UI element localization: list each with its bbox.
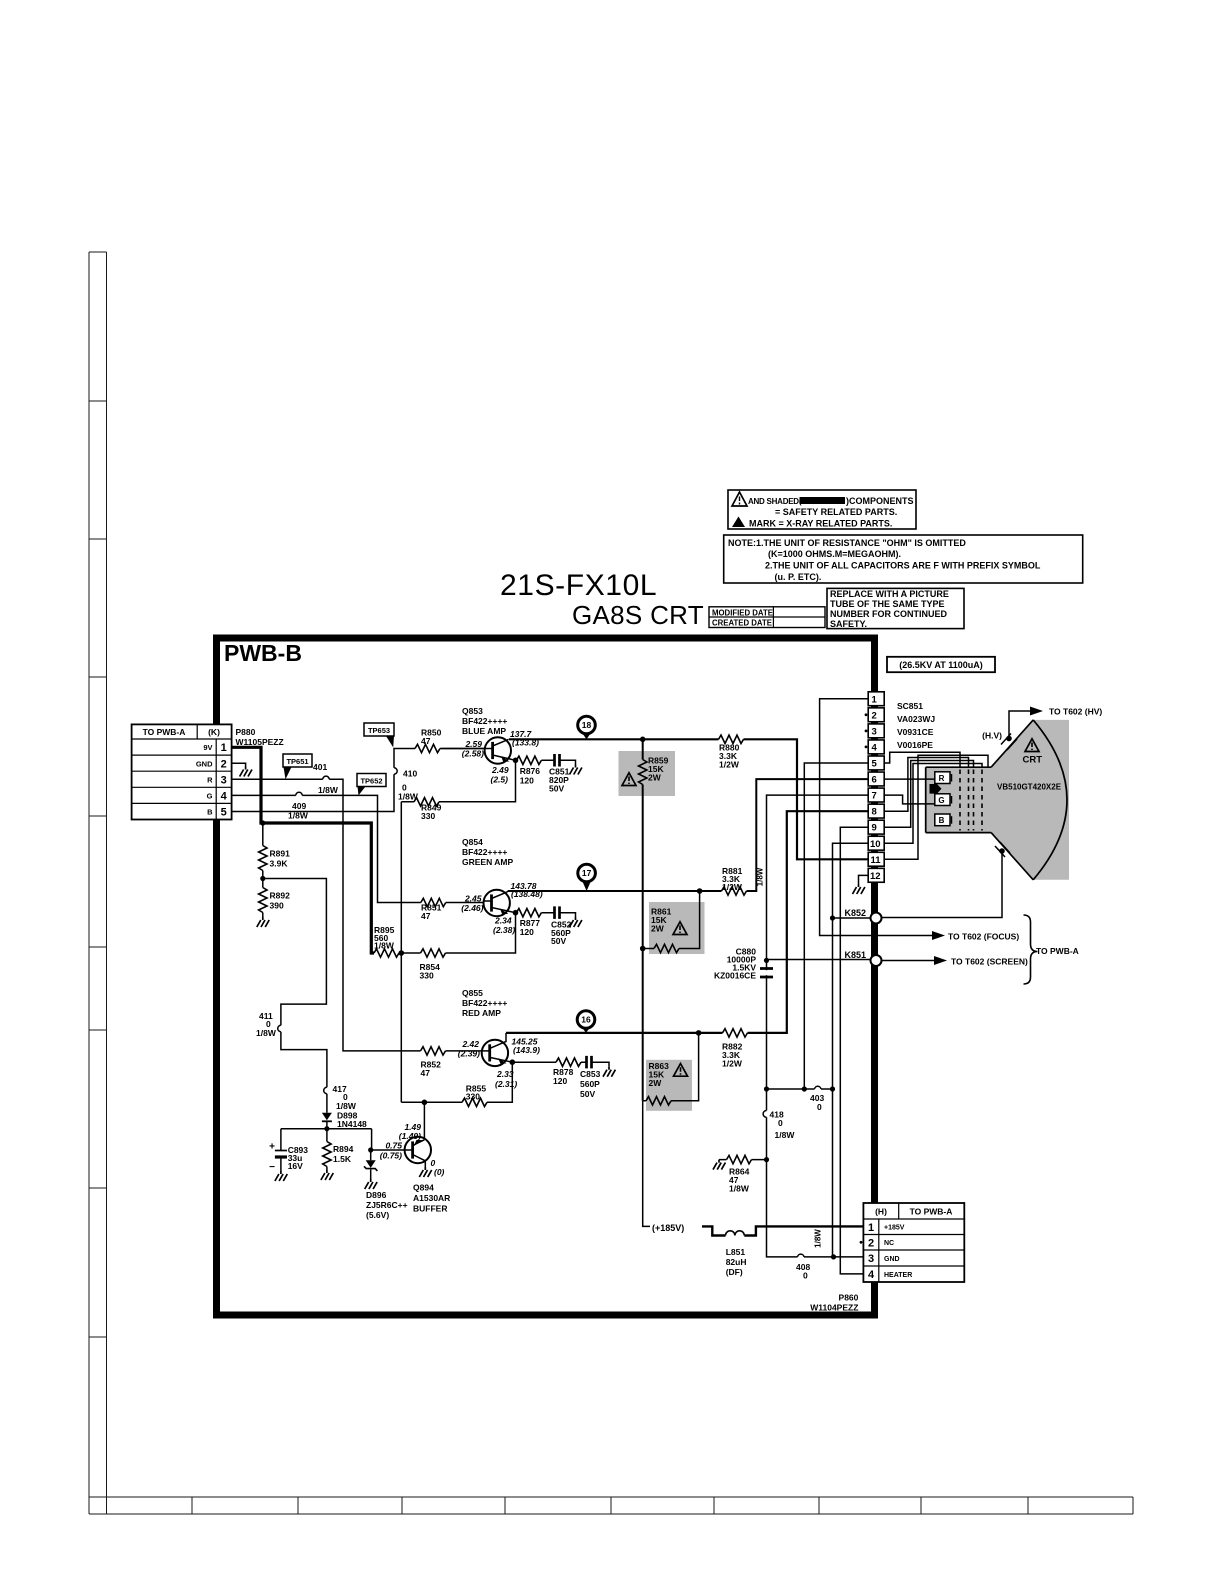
K852 left link xyxy=(833,917,872,919)
svg-text:560P: 560P xyxy=(580,1079,600,1089)
svg-text:1/8W: 1/8W xyxy=(814,1229,823,1248)
trunk with R859 xyxy=(642,739,644,1101)
svg-text:(H.V): (H.V) xyxy=(982,731,1002,741)
svg-text:W1105PEZZ: W1105PEZZ xyxy=(236,737,284,747)
wire B row xyxy=(232,749,415,812)
svg-text:TUBE OF THE SAME TYPE: TUBE OF THE SAME TYPE xyxy=(830,599,945,609)
svg-text:4: 4 xyxy=(868,1269,875,1281)
svg-text:410: 410 xyxy=(403,769,417,779)
svg-text:C853: C853 xyxy=(580,1069,601,1079)
svg-text:2.33: 2.33 xyxy=(496,1069,514,1079)
svg-text:0: 0 xyxy=(803,1271,808,1281)
wire R row xyxy=(232,779,421,1051)
vertical C pin10/K852 xyxy=(833,843,869,1257)
svg-text:4: 4 xyxy=(221,791,228,803)
svg-text:1/8W: 1/8W xyxy=(318,785,339,795)
svg-text:P880: P880 xyxy=(236,727,256,737)
resistor R850 47 xyxy=(415,744,440,752)
svg-text:21S-FX10L: 21S-FX10L xyxy=(500,569,657,602)
ground under R892 xyxy=(257,917,269,927)
pin7 loop to G box xyxy=(884,795,935,804)
svg-text:330: 330 xyxy=(466,1092,480,1102)
svg-text:TP651: TP651 xyxy=(286,757,308,766)
capacitor C880 10000P xyxy=(760,969,773,978)
svg-text:HEATER: HEATER xyxy=(884,1272,912,1279)
TO T602 SCREEN arrow xyxy=(882,956,1029,966)
R849 feedback blue xyxy=(401,760,515,802)
inductor L851 82uH xyxy=(726,1231,745,1236)
capacitor C852 560P xyxy=(555,906,560,919)
svg-text:2: 2 xyxy=(872,710,877,721)
TO PWB-A bracket xyxy=(1024,915,1038,984)
R891/R892 column xyxy=(262,823,264,917)
K851 left link xyxy=(767,959,872,961)
pin9 loop to grid xyxy=(884,761,973,828)
svg-text:Q855: Q855 xyxy=(462,988,483,998)
svg-text:9: 9 xyxy=(872,823,877,834)
svg-text:(2.58): (2.58) xyxy=(462,749,484,759)
+185V rail to connector with L851 dip xyxy=(700,1226,866,1235)
svg-text:2W: 2W xyxy=(651,924,665,934)
svg-text:GND: GND xyxy=(884,1256,900,1263)
R863 link xyxy=(643,1033,699,1101)
ground pin2 GND xyxy=(240,767,252,777)
svg-text:R876: R876 xyxy=(520,766,541,776)
svg-text:82uH: 82uH xyxy=(726,1257,747,1267)
svg-text:47: 47 xyxy=(421,736,431,746)
svg-text:A1530AR: A1530AR xyxy=(413,1193,450,1203)
svg-text:RED AMP: RED AMP xyxy=(462,1008,501,1018)
svg-text:AND SHADED(: AND SHADED( xyxy=(748,497,802,506)
svg-text:R891: R891 xyxy=(270,849,291,859)
svg-text:(H): (H) xyxy=(875,1207,887,1217)
svg-text:2.59: 2.59 xyxy=(464,739,482,749)
svg-text:50V: 50V xyxy=(580,1089,595,1099)
resistor R863 15K 2W xyxy=(646,1097,671,1105)
svg-text:P860: P860 xyxy=(839,1293,859,1303)
svg-text:1: 1 xyxy=(872,694,878,705)
svg-text:(K=1000 OHMS.M=MEGAOHM).: (K=1000 OHMS.M=MEGAOHM). xyxy=(768,549,901,559)
svg-text:2.THE UNIT OF ALL CAPACITORS A: 2.THE UNIT OF ALL CAPACITORS ARE F WITH … xyxy=(765,561,1041,571)
svg-text:R892: R892 xyxy=(270,891,291,901)
HV anode clip xyxy=(982,707,1102,751)
svg-text:0.75: 0.75 xyxy=(385,1141,402,1151)
svg-text:3: 3 xyxy=(221,774,227,786)
svg-text:V0016PE: V0016PE xyxy=(897,740,933,750)
svg-text:MARK = X-RAY RELATED PARTS.: MARK = X-RAY RELATED PARTS. xyxy=(749,518,892,528)
svg-text:120: 120 xyxy=(520,927,534,937)
svg-text:K852: K852 xyxy=(844,908,866,918)
svg-text:2.45: 2.45 xyxy=(464,893,482,903)
svg-text:1: 1 xyxy=(868,1222,874,1234)
svg-text:R: R xyxy=(939,774,945,783)
svg-text:SC851: SC851 xyxy=(897,701,923,711)
svg-text:−: − xyxy=(269,1162,275,1173)
resistor R876 120 xyxy=(516,756,541,764)
svg-text:5: 5 xyxy=(872,759,878,770)
svg-text:G: G xyxy=(938,796,944,805)
svg-text:(+185V): (+185V) xyxy=(652,1223,684,1233)
ground under C893 xyxy=(275,1171,287,1181)
svg-text:330: 330 xyxy=(421,811,435,821)
svg-text:2W: 2W xyxy=(649,1078,663,1088)
svg-text:2.49: 2.49 xyxy=(491,765,509,775)
bus under D898 xyxy=(281,1128,372,1130)
svg-text:8: 8 xyxy=(872,807,877,818)
svg-text:BF422++++: BF422++++ xyxy=(462,847,507,857)
feedback vertical x=401.3 xyxy=(400,802,402,953)
red emitter parts xyxy=(512,1062,609,1067)
CRT grid dashed lines xyxy=(960,770,982,831)
svg-text:(138.48): (138.48) xyxy=(511,889,543,899)
svg-text:(2.39): (2.39) xyxy=(458,1049,480,1059)
CRT funnel gray xyxy=(926,720,1069,880)
ground under R894 xyxy=(321,1170,333,1180)
svg-text:2: 2 xyxy=(221,758,227,770)
D898 diode xyxy=(322,1113,332,1121)
svg-text:= SAFETY RELATED PARTS.: = SAFETY RELATED PARTS. xyxy=(775,507,897,517)
border rulers xyxy=(89,252,1133,1514)
red feedback R855 xyxy=(401,953,512,1102)
svg-text:)COMPONENTS: )COMPONENTS xyxy=(846,496,914,506)
R894 xyxy=(326,1129,328,1170)
svg-text:(DF): (DF) xyxy=(726,1267,743,1277)
svg-text:(5.6V): (5.6V) xyxy=(366,1210,389,1220)
ground after C851 xyxy=(570,765,582,775)
svg-text:TO T602 (HV): TO T602 (HV) xyxy=(1049,707,1102,717)
pin11 loop to socket xyxy=(884,755,988,859)
svg-text:330: 330 xyxy=(420,971,434,981)
svg-text:1/8W: 1/8W xyxy=(374,941,395,951)
svg-text:409: 409 xyxy=(292,801,306,811)
branch to jumpers 411/417 and D898 xyxy=(263,879,327,1129)
node 16 xyxy=(577,1011,595,1033)
svg-text:L851: L851 xyxy=(726,1247,746,1257)
svg-text:(u. P. ETC).: (u. P. ETC). xyxy=(775,572,822,582)
green emitter parts xyxy=(516,913,576,917)
Q894 base wire xyxy=(371,1149,405,1151)
svg-text:TO T602 (FOCUS): TO T602 (FOCUS) xyxy=(948,931,1019,941)
D896 zener branch xyxy=(370,1129,373,1179)
svg-text:1: 1 xyxy=(221,742,227,754)
resistor R878 120 xyxy=(556,1058,581,1066)
svg-text:(26.5KV AT 1100uA): (26.5KV AT 1100uA) xyxy=(899,660,983,670)
svg-text:6: 6 xyxy=(872,775,877,786)
PWB-B thick border xyxy=(217,638,875,1315)
resistor R859 15K 2W xyxy=(639,760,647,785)
svg-text:TO T602 (SCREEN): TO T602 (SCREEN) xyxy=(951,956,1028,966)
svg-text:PWB-B: PWB-B xyxy=(224,640,302,666)
svg-text:5: 5 xyxy=(221,807,227,819)
svg-text:D896: D896 xyxy=(366,1190,387,1200)
resistor R891 3.9K xyxy=(259,846,267,871)
403 jumper line xyxy=(767,1088,834,1090)
ground at R864 xyxy=(713,1160,725,1170)
svg-text:GREEN AMP: GREEN AMP xyxy=(462,857,513,867)
svg-text:B: B xyxy=(939,816,945,825)
svg-text:18: 18 xyxy=(582,720,592,730)
svg-text:TO PWB-A: TO PWB-A xyxy=(143,727,186,737)
svg-text:ZJ5R6C++: ZJ5R6C++ xyxy=(366,1200,408,1210)
svg-text:2W: 2W xyxy=(648,773,662,783)
replace with picture tube box xyxy=(827,588,964,629)
transistor Q853 BF422 BLUE AMP xyxy=(442,737,516,763)
svg-text:3: 3 xyxy=(868,1253,874,1265)
left connector table TO PWB-A (K) xyxy=(132,724,232,819)
svg-text:BLUE AMP: BLUE AMP xyxy=(462,726,506,736)
node 17 xyxy=(578,864,596,891)
svg-text:(0.75): (0.75) xyxy=(380,1151,402,1161)
svg-text:1/8W: 1/8W xyxy=(398,792,419,802)
svg-text:VA023WJ: VA023WJ xyxy=(897,714,935,724)
svg-text:G: G xyxy=(207,792,213,801)
svg-text:+185V: +185V xyxy=(884,1225,905,1232)
svg-text:(0): (0) xyxy=(434,1167,445,1177)
vertical A pin7/GND column xyxy=(767,795,869,1257)
svg-text:0: 0 xyxy=(817,1102,822,1112)
pin12 ground xyxy=(859,875,869,884)
svg-text:401: 401 xyxy=(313,762,327,772)
transistor Q855 BF422 RED AMP xyxy=(446,1033,513,1066)
svg-text:R894: R894 xyxy=(333,1144,354,1154)
resistor R892 390 xyxy=(259,888,267,913)
svg-text:BUFFER: BUFFER xyxy=(413,1204,447,1214)
CRT cathode boxes R G B xyxy=(935,772,952,826)
svg-text:3: 3 xyxy=(872,726,877,737)
pin strip 1-12 xyxy=(865,692,885,882)
ground pin12 xyxy=(853,884,865,894)
svg-text:NOTE:1.THE UNIT OF RESISTANCE: NOTE:1.THE UNIT OF RESISTANCE "OHM" IS O… xyxy=(728,538,966,548)
focus clip on lower funnel xyxy=(882,842,1011,918)
svg-text:CRT: CRT xyxy=(1023,755,1043,766)
ground after C853 xyxy=(603,1067,615,1077)
svg-text:+: + xyxy=(269,1142,275,1153)
note box 2 xyxy=(724,535,1083,583)
svg-text:1.5K: 1.5K xyxy=(333,1154,352,1164)
svg-text:1/2W: 1/2W xyxy=(722,1059,743,1069)
svg-text:1N4148: 1N4148 xyxy=(337,1119,367,1129)
svg-text:SAFETY.: SAFETY. xyxy=(830,619,867,629)
resistor R855 330 xyxy=(462,1098,487,1106)
trunk to +185V rail xyxy=(643,1101,652,1227)
wire 9V thick from pin1 xyxy=(232,747,374,953)
warning triangles in shaded boxes xyxy=(622,773,636,786)
svg-text:B: B xyxy=(207,808,213,817)
svg-text:(133.8): (133.8) xyxy=(512,738,539,748)
resistor R854 330 xyxy=(421,949,446,957)
svg-text:4: 4 xyxy=(872,743,878,754)
Q894 collector/emitter wires xyxy=(423,1102,425,1139)
svg-text:Q894: Q894 xyxy=(413,1183,434,1193)
shaded safety boxes xyxy=(619,751,676,796)
node 18 xyxy=(578,716,596,739)
svg-text:2: 2 xyxy=(868,1237,874,1249)
italic measurement labels xyxy=(380,729,543,1177)
resistor R880 3.3K xyxy=(719,735,744,743)
svg-text:BF422++++: BF422++++ xyxy=(462,716,507,726)
svg-text:1/8W: 1/8W xyxy=(288,811,309,821)
svg-text:NUMBER FOR CONTINUED: NUMBER FOR CONTINUED xyxy=(830,609,947,619)
svg-text:Q853: Q853 xyxy=(462,706,483,716)
resistor R882 3.3K xyxy=(723,1029,748,1037)
pin6 line to R box xyxy=(884,778,935,780)
svg-text:TP653: TP653 xyxy=(368,726,390,735)
resistor R851 47 xyxy=(421,898,446,906)
resistor R877 120 xyxy=(516,909,541,917)
svg-text:TP652: TP652 xyxy=(360,776,382,785)
svg-text:120: 120 xyxy=(553,1076,567,1086)
wire G row xyxy=(232,795,421,902)
svg-text:KZ0016CE: KZ0016CE xyxy=(714,971,756,981)
svg-text:(2.31): (2.31) xyxy=(495,1079,517,1089)
TO T602 FOCUS arrow xyxy=(876,931,1019,941)
resistor R849 330 xyxy=(414,798,439,806)
svg-text:V0931CE: V0931CE xyxy=(897,727,934,737)
svg-text:2.34: 2.34 xyxy=(494,916,512,926)
svg-text:1/2W: 1/2W xyxy=(722,882,743,892)
svg-text:VB510GT420X2E: VB510GT420X2E xyxy=(997,782,1062,791)
svg-text:50V: 50V xyxy=(551,936,566,946)
svg-text:50V: 50V xyxy=(549,784,564,794)
svg-text:1/8W: 1/8W xyxy=(336,1101,357,1111)
svg-text:(2.38): (2.38) xyxy=(493,925,515,935)
CRT G1 electrode pentagon xyxy=(930,784,942,794)
svg-text:W1104PEZZ: W1104PEZZ xyxy=(810,1303,858,1313)
bottom connector table (H) TO PWB-A xyxy=(863,1203,964,1282)
svg-text:47: 47 xyxy=(421,911,431,921)
svg-text:1/8W: 1/8W xyxy=(729,1184,750,1194)
C893 electrolytic xyxy=(280,1129,282,1171)
svg-text:BF422++++: BF422++++ xyxy=(462,998,507,1008)
ground after C852 xyxy=(570,917,582,927)
R861 link xyxy=(643,891,700,949)
resistor R895 560 xyxy=(374,949,399,957)
green collector rail xyxy=(508,779,868,891)
pin8 loop to grid xyxy=(884,758,968,812)
pin10 loop to grid xyxy=(884,764,982,844)
CRT outline xyxy=(926,720,1067,880)
TP flags xyxy=(283,723,394,795)
resistor R894 1.5K xyxy=(323,1142,331,1167)
svg-text:17: 17 xyxy=(582,868,592,878)
pin1 / focus vertical xyxy=(820,699,871,936)
svg-text:TO PWB-A: TO PWB-A xyxy=(910,1207,953,1217)
svg-text:2.42: 2.42 xyxy=(461,1039,479,1049)
(+185V) label with white gap xyxy=(650,1220,702,1233)
R895 R854 node xyxy=(371,913,515,953)
svg-text:47: 47 xyxy=(421,1068,431,1078)
vertical D pin9/heater xyxy=(840,827,868,1274)
capacitor C851 820P xyxy=(555,754,560,767)
blue emitter parts xyxy=(516,760,576,764)
resistor R852 47 xyxy=(421,1047,446,1055)
R864 xyxy=(719,1159,767,1161)
svg-text:3.9K: 3.9K xyxy=(270,859,289,869)
capacitor C853 560P xyxy=(587,1056,592,1069)
svg-text:Q854: Q854 xyxy=(462,837,483,847)
svg-text:GND: GND xyxy=(196,759,213,768)
ground under D896 xyxy=(365,1179,377,1189)
svg-text:(1.49): (1.49) xyxy=(399,1131,421,1141)
svg-text:9V: 9V xyxy=(203,743,212,752)
safety note box 1 xyxy=(728,490,916,529)
svg-text:(2.5): (2.5) xyxy=(491,775,509,785)
CRT warning triangle xyxy=(1025,739,1039,752)
svg-text:(2.46): (2.46) xyxy=(461,903,483,913)
26.5KV box xyxy=(887,657,995,672)
wire GND stub pin2 xyxy=(232,763,246,766)
svg-text:(K): (K) xyxy=(208,727,220,737)
svg-text:R: R xyxy=(207,775,213,784)
transistor Q894 A1530AR BUFFER xyxy=(405,1137,431,1163)
vertical B pin5 xyxy=(804,763,868,1089)
svg-text:11: 11 xyxy=(871,855,882,866)
svg-text:MODIFIED DATE: MODIFIED DATE xyxy=(712,608,773,617)
svg-text:1/8W: 1/8W xyxy=(775,1130,796,1140)
svg-text:120: 120 xyxy=(520,776,534,786)
blue collector rail xyxy=(509,739,868,859)
svg-text:10: 10 xyxy=(870,839,881,850)
svg-text:REPLACE WITH A PICTURE: REPLACE WITH A PICTURE xyxy=(830,589,949,599)
svg-text:TO PWB-A: TO PWB-A xyxy=(1036,946,1079,956)
svg-text:1/8W: 1/8W xyxy=(256,1028,277,1038)
svg-text:390: 390 xyxy=(270,901,284,911)
svg-text:GA8S CRT: GA8S CRT xyxy=(572,600,704,630)
K852 K851 xyxy=(871,913,882,924)
resistor R861 15K 2W xyxy=(654,944,679,952)
svg-text:7: 7 xyxy=(872,791,877,802)
svg-text:CREATED DATE: CREATED DATE xyxy=(712,619,772,628)
svg-text:1/8W: 1/8W xyxy=(756,867,765,886)
svg-text:12: 12 xyxy=(870,871,881,882)
resistor R864 47 xyxy=(727,1155,752,1163)
svg-text:(143.9): (143.9) xyxy=(513,1045,540,1055)
svg-text:NC: NC xyxy=(884,1240,894,1247)
svg-text:0: 0 xyxy=(778,1118,783,1128)
svg-text:16: 16 xyxy=(581,1015,591,1025)
dates table xyxy=(709,607,825,628)
red collector rail xyxy=(506,811,868,1033)
resistor R881 3.3K xyxy=(722,887,747,895)
transistor Q854 BF422 GREEN AMP xyxy=(446,890,516,916)
ground Q894 emitter xyxy=(419,1167,431,1177)
svg-text:1/2W: 1/2W xyxy=(719,760,740,770)
svg-text:K851: K851 xyxy=(844,950,866,960)
pin5 loop to grid xyxy=(884,752,960,767)
svg-text:16V: 16V xyxy=(288,1161,303,1171)
